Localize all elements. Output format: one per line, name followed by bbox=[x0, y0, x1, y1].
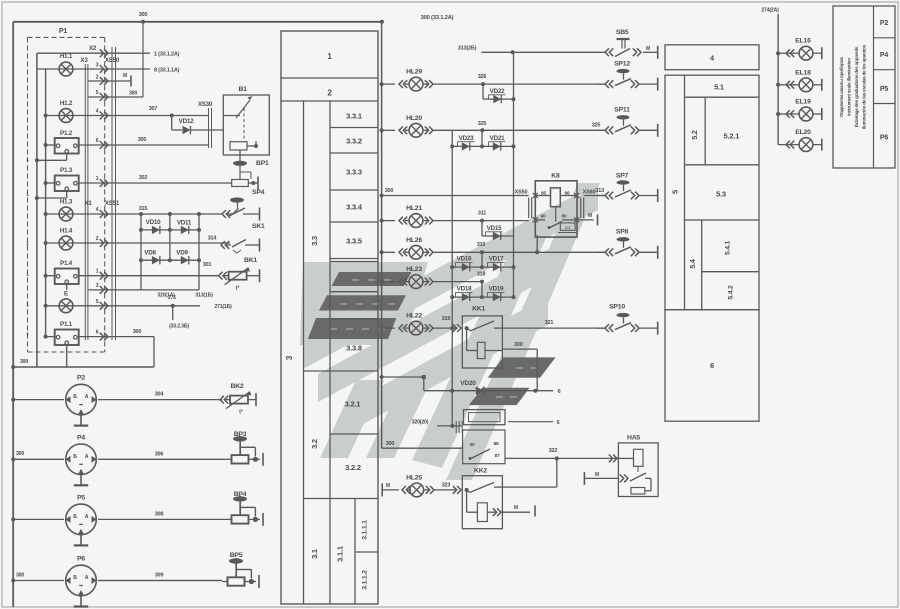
svg-text:3.3.5: 3.3.5 bbox=[346, 237, 362, 246]
svg-text:5.2.1: 5.2.1 bbox=[724, 132, 740, 141]
svg-text:311: 311 bbox=[478, 211, 486, 217]
svg-text:5: 5 bbox=[96, 299, 99, 305]
svg-text:271: 271 bbox=[168, 295, 176, 301]
svg-text:XS60: XS60 bbox=[583, 190, 596, 196]
svg-text:Éclairage des graduations des: Éclairage des graduations des appareils bbox=[852, 46, 859, 127]
svg-text:EL19: EL19 bbox=[795, 99, 811, 106]
svg-text:BP1: BP1 bbox=[256, 160, 269, 167]
svg-text:SP11: SP11 bbox=[614, 107, 630, 114]
svg-text:P1.2: P1.2 bbox=[60, 130, 73, 137]
svg-text:Б: Б bbox=[73, 514, 77, 520]
svg-text:3.3.8: 3.3.8 bbox=[346, 344, 362, 353]
svg-text:90: 90 bbox=[541, 214, 546, 220]
svg-text:H1.3: H1.3 bbox=[60, 199, 73, 206]
svg-text:H1.2: H1.2 bbox=[60, 100, 73, 107]
svg-text:EL20: EL20 bbox=[795, 129, 811, 136]
svg-text:HL23: HL23 bbox=[406, 266, 422, 273]
svg-text:HA5: HA5 bbox=[627, 435, 640, 442]
svg-text:301: 301 bbox=[203, 262, 212, 268]
svg-text:VD18: VD18 bbox=[457, 286, 472, 293]
svg-text:322: 322 bbox=[549, 448, 558, 454]
svg-text:BK2: BK2 bbox=[231, 383, 244, 390]
svg-text:5.2: 5.2 bbox=[692, 130, 699, 139]
svg-text:А: А bbox=[85, 454, 89, 460]
svg-text:P5: P5 bbox=[77, 494, 85, 501]
svg-text:307: 307 bbox=[149, 106, 158, 112]
svg-text:XS51: XS51 bbox=[105, 200, 120, 207]
svg-text:SK1: SK1 bbox=[252, 223, 265, 230]
svg-text:VD19: VD19 bbox=[489, 286, 504, 293]
svg-text:8 (33.1.1А): 8 (33.1.1А) bbox=[154, 68, 180, 74]
svg-text:Подсветка шкалы приборов: Подсветка шкалы приборов bbox=[838, 57, 844, 117]
svg-text:K8: K8 bbox=[551, 173, 560, 180]
svg-text:315: 315 bbox=[139, 206, 148, 212]
svg-text:XS50: XS50 bbox=[515, 190, 528, 196]
svg-text:3.3.3: 3.3.3 bbox=[346, 168, 362, 177]
svg-text:30: 30 bbox=[470, 442, 475, 448]
svg-text:3.3.1: 3.3.1 bbox=[346, 112, 362, 121]
svg-text:3.1: 3.1 bbox=[310, 549, 319, 559]
svg-text:Б: Б bbox=[73, 394, 77, 400]
svg-text:313(1Б): 313(1Б) bbox=[195, 293, 213, 299]
svg-text:P1.3: P1.3 bbox=[60, 167, 73, 174]
svg-text:300: 300 bbox=[133, 329, 142, 335]
svg-text:VD15: VD15 bbox=[487, 225, 502, 232]
svg-text:P2: P2 bbox=[880, 20, 888, 27]
svg-text:VD9: VD9 bbox=[176, 250, 188, 257]
svg-text:5.4.1: 5.4.1 bbox=[725, 241, 732, 256]
svg-text:HL20: HL20 bbox=[406, 115, 422, 122]
svg-text:3.3.2: 3.3.2 bbox=[346, 137, 362, 146]
svg-text:309: 309 bbox=[155, 573, 164, 579]
svg-text:3.1.1.2: 3.1.1.2 bbox=[362, 570, 369, 590]
svg-text:6: 6 bbox=[710, 361, 714, 370]
svg-text:VD17: VD17 bbox=[489, 256, 504, 263]
svg-text:VD23: VD23 bbox=[459, 135, 474, 142]
svg-text:VD10: VD10 bbox=[146, 219, 161, 226]
svg-text:4: 4 bbox=[96, 207, 99, 213]
svg-text:P1.1: P1.1 bbox=[60, 321, 73, 328]
svg-text:5.3: 5.3 bbox=[716, 190, 726, 199]
svg-text:P4: P4 bbox=[77, 434, 85, 441]
svg-text:321: 321 bbox=[545, 320, 554, 326]
svg-text:P1.4: P1.4 bbox=[60, 260, 73, 267]
svg-text:1: 1 bbox=[96, 269, 99, 275]
svg-text:3: 3 bbox=[96, 283, 99, 289]
svg-text:KK2: KK2 bbox=[474, 468, 487, 475]
svg-text:3: 3 bbox=[96, 63, 99, 69]
svg-text:3.1.1.1: 3.1.1.1 bbox=[362, 520, 369, 540]
svg-text:300: 300 bbox=[386, 441, 395, 447]
svg-text:VD21: VD21 bbox=[490, 135, 505, 142]
svg-text:308: 308 bbox=[155, 511, 164, 517]
svg-text:313(2Б): 313(2Б) bbox=[458, 46, 477, 52]
svg-text:320(20): 320(20) bbox=[412, 420, 429, 426]
svg-text:6: 6 bbox=[96, 138, 99, 144]
svg-text:80: 80 bbox=[562, 214, 567, 220]
svg-text:VD8: VD8 bbox=[144, 250, 156, 257]
svg-text:М: М bbox=[588, 213, 592, 219]
svg-text:X2: X2 bbox=[89, 45, 97, 52]
svg-text:t°: t° bbox=[236, 286, 240, 292]
svg-text:323: 323 bbox=[442, 483, 451, 489]
svg-text:319: 319 bbox=[442, 316, 451, 322]
svg-text:314: 314 bbox=[208, 236, 218, 242]
svg-text:HL26: HL26 bbox=[406, 237, 422, 244]
svg-text:А: А bbox=[85, 575, 89, 581]
svg-text:300: 300 bbox=[514, 342, 523, 348]
svg-text:P1: P1 bbox=[59, 28, 67, 35]
svg-text:302: 302 bbox=[139, 175, 148, 181]
svg-text:SB5: SB5 bbox=[616, 29, 629, 36]
svg-text:5.1: 5.1 bbox=[714, 83, 724, 92]
svg-text:VD22: VD22 bbox=[490, 88, 505, 95]
svg-text:300: 300 bbox=[139, 12, 148, 18]
svg-text:HL22: HL22 bbox=[406, 313, 422, 320]
svg-text:4: 4 bbox=[96, 109, 99, 115]
svg-text:SP10: SP10 bbox=[609, 304, 625, 311]
svg-text:274(2А): 274(2А) bbox=[761, 8, 779, 14]
svg-text:1 (33.1.2А): 1 (33.1.2А) bbox=[154, 52, 180, 58]
svg-text:VD20: VD20 bbox=[460, 380, 476, 387]
svg-text:P4: P4 bbox=[880, 52, 888, 59]
svg-text:6: 6 bbox=[96, 330, 99, 336]
svg-text:5.4.2: 5.4.2 bbox=[728, 285, 735, 300]
svg-text:HL25: HL25 bbox=[406, 475, 422, 482]
svg-text:325: 325 bbox=[592, 123, 601, 129]
svg-text:3.3: 3.3 bbox=[310, 236, 319, 246]
svg-text:271(1Б): 271(1Б) bbox=[214, 304, 232, 310]
svg-text:3.1.1: 3.1.1 bbox=[336, 546, 345, 562]
svg-text:А: А bbox=[85, 394, 89, 400]
svg-text:300 (33.1.2А): 300 (33.1.2А) bbox=[421, 15, 454, 21]
svg-text:SP7: SP7 bbox=[616, 173, 629, 180]
svg-text:X3: X3 bbox=[80, 57, 88, 64]
svg-text:313: 313 bbox=[595, 188, 604, 194]
svg-text:326: 326 bbox=[478, 74, 487, 80]
svg-text:310: 310 bbox=[477, 242, 486, 248]
svg-text:Instrument scale illumination: Instrument scale illumination bbox=[847, 58, 852, 116]
svg-text:6: 6 bbox=[557, 420, 560, 426]
svg-text:H1.4: H1.4 bbox=[60, 228, 73, 235]
svg-text:EL18: EL18 bbox=[795, 69, 811, 76]
svg-text:305: 305 bbox=[138, 137, 147, 143]
svg-text:H1.1: H1.1 bbox=[60, 53, 73, 60]
svg-text:5: 5 bbox=[671, 190, 680, 194]
svg-text:SP4: SP4 bbox=[252, 189, 265, 196]
svg-text:300: 300 bbox=[16, 573, 24, 579]
svg-text:325: 325 bbox=[478, 121, 487, 127]
svg-text:306: 306 bbox=[155, 451, 164, 457]
svg-text:Б: Б bbox=[73, 575, 77, 581]
svg-text:(33.2.3Б): (33.2.3Б) bbox=[169, 324, 189, 330]
svg-text:300: 300 bbox=[385, 188, 394, 194]
svg-text:Б: Б bbox=[73, 454, 77, 460]
svg-text:3.2: 3.2 bbox=[310, 439, 319, 449]
svg-text:М: М bbox=[595, 472, 599, 478]
svg-text:2: 2 bbox=[96, 75, 99, 81]
svg-text:М: М bbox=[123, 73, 127, 79]
svg-text:VD12: VD12 bbox=[179, 118, 194, 125]
svg-text:P6: P6 bbox=[77, 556, 85, 563]
svg-text:А: А bbox=[85, 514, 89, 520]
svg-text:VD11: VD11 bbox=[177, 220, 192, 227]
svg-text:2: 2 bbox=[96, 236, 99, 242]
svg-text:5.4: 5.4 bbox=[690, 259, 697, 268]
svg-text:XS50: XS50 bbox=[105, 57, 120, 64]
svg-text:t°: t° bbox=[239, 410, 243, 416]
svg-text:М: М bbox=[646, 46, 650, 52]
svg-text:87: 87 bbox=[495, 453, 500, 459]
svg-text:E: E bbox=[64, 291, 68, 298]
svg-text:М: М bbox=[514, 505, 518, 511]
svg-text:SP12: SP12 bbox=[614, 61, 630, 68]
svg-text:P2: P2 bbox=[77, 375, 85, 382]
svg-text:B1: B1 bbox=[239, 86, 248, 93]
svg-text:3.2.1: 3.2.1 bbox=[345, 400, 361, 409]
svg-text:Iluminación de las escalas de: Iluminación de las escalas de los aparat… bbox=[862, 44, 867, 129]
svg-text:XS30: XS30 bbox=[198, 101, 213, 108]
svg-text:5: 5 bbox=[96, 90, 99, 96]
svg-text:P5: P5 bbox=[880, 86, 888, 93]
svg-text:6: 6 bbox=[558, 389, 561, 395]
svg-text:318: 318 bbox=[477, 272, 486, 278]
svg-text:1: 1 bbox=[96, 176, 99, 182]
svg-text:BK1: BK1 bbox=[244, 257, 257, 264]
svg-text:HL29: HL29 bbox=[406, 69, 422, 76]
svg-text:300: 300 bbox=[129, 91, 137, 97]
svg-text:KK1: KK1 bbox=[472, 306, 485, 313]
svg-text:3.3.4: 3.3.4 bbox=[346, 203, 363, 212]
svg-text:P6: P6 bbox=[880, 135, 888, 142]
svg-text:300: 300 bbox=[16, 451, 24, 457]
svg-text:3.2.2: 3.2.2 bbox=[345, 463, 361, 472]
svg-text:EL16: EL16 bbox=[795, 38, 811, 45]
svg-text:X1: X1 bbox=[84, 200, 92, 207]
svg-text:88: 88 bbox=[494, 441, 499, 447]
svg-text:VD16: VD16 bbox=[457, 256, 472, 263]
svg-text:SP8: SP8 bbox=[616, 229, 629, 236]
svg-text:BP5: BP5 bbox=[230, 552, 243, 559]
svg-text:300: 300 bbox=[20, 359, 28, 365]
svg-text:М: М bbox=[386, 483, 390, 489]
svg-text:HL21: HL21 bbox=[406, 205, 422, 212]
svg-text:304: 304 bbox=[155, 392, 165, 398]
